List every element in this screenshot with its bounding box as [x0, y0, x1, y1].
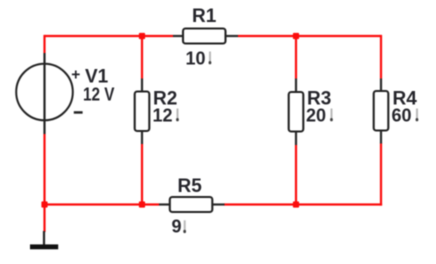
wire ground drop (bottom node to ground) — [43, 205, 45, 233]
voltage source V1 12 V — [16, 53, 114, 134]
svg-text:R1: R1 — [192, 6, 217, 27]
svg-text:9: 9 — [172, 217, 182, 237]
resistor R4 60 ohm (right vertical) — [374, 79, 419, 144]
svg-text:R5: R5 — [178, 176, 203, 197]
svg-text:12: 12 — [153, 106, 173, 126]
node A junction dot (R2 top) — [139, 33, 145, 39]
resistor R3 20 ohm (middle vertical) — [289, 79, 333, 146]
node E junction dot (R3 bottom) — [293, 201, 299, 207]
wire R2 bottom (R2 to bottom wire) — [141, 144, 143, 205]
wire top left (node top: V1+ to R1 left) — [45, 35, 174, 37]
svg-text:20: 20 — [306, 106, 326, 126]
svg-text:10: 10 — [186, 49, 206, 69]
wire bottom right (R5 right to R4 bottom) — [224, 203, 382, 205]
svg-text:+: + — [71, 66, 80, 83]
node D junction dot (R2 bottom) — [139, 201, 145, 207]
resistor R2 12 ohm (left vertical) — [135, 79, 179, 145]
wire R4 top (top wire corner down to R4) — [380, 35, 382, 79]
ground — [30, 231, 58, 249]
wire top right (R1 right to R4 top) — [238, 35, 381, 37]
wire R3 bottom (R3 to bottom wire) — [295, 145, 297, 205]
resistor R1 10 ohm (top horizontal) — [173, 6, 238, 69]
wire left vertical upper (top node to V1 plus terminal) — [43, 35, 45, 53]
svg-text:60: 60 — [392, 106, 412, 126]
node C junction dot (ground node at V1 bottom) — [41, 201, 47, 207]
wire left vertical lower (V1 minus terminal to bottom node) — [43, 134, 45, 205]
wire bottom left (bottom node to R5 left) — [43, 203, 159, 205]
wire R3 top (top wire to R3) — [295, 36, 297, 79]
wire R2 top (top wire to R2) — [141, 36, 143, 79]
wire R4 bottom (R4 to bottom wire corner) — [380, 143, 382, 206]
resistor R5 9 ohm (bottom horizontal) — [159, 176, 225, 237]
svg-text:12 V: 12 V — [83, 85, 115, 105]
node B junction dot (R3 top) — [293, 33, 299, 39]
